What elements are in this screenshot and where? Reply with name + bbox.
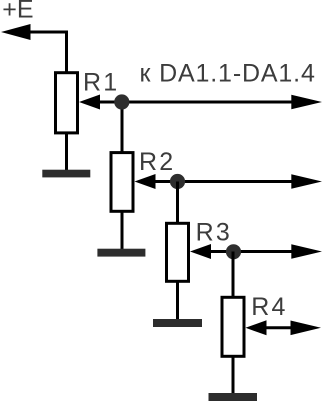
wire row 1 [98, 101, 292, 104]
ground (R3) [153, 319, 202, 327]
ground (R4) [209, 393, 258, 401]
wire node 1 to R2 top [121, 102, 124, 154]
svg-text:R2: R2 [139, 148, 175, 176]
svg-text:R3: R3 [196, 219, 232, 247]
wire row 3 [209, 250, 292, 253]
arrow to +E supply [1, 24, 31, 40]
wire R1 bottom to ground [65, 133, 68, 171]
ground (R2) [97, 249, 145, 257]
svg-text:R1: R1 [83, 69, 119, 97]
arrow out row 1 [291, 95, 322, 110]
wire node 2 to R3 top [176, 182, 179, 224]
resistor R4 [222, 297, 244, 356]
junction node 3 [226, 244, 241, 259]
junction node 1 [114, 94, 129, 109]
wire node 3 to R4 top [232, 252, 235, 299]
svg-text:R4: R4 [251, 293, 287, 321]
resistor R3 [167, 223, 189, 281]
wire R3 bottom to ground [176, 282, 179, 321]
wiper arrow into R4 [246, 320, 267, 335]
junction node 2 [170, 174, 185, 189]
wiper arrow into R2 [135, 174, 156, 189]
resistor R1 [56, 73, 78, 133]
wire row 2 [154, 180, 293, 183]
wiper arrow into R3 [190, 244, 211, 259]
wire R4 bottom to ground [232, 356, 235, 395]
wire row 4 [265, 326, 293, 329]
arrow out row 3 [291, 244, 322, 259]
arrow out row 2 [291, 174, 322, 189]
wire +E feed to R1 top [29, 32, 67, 72]
resistor R2 [111, 153, 133, 212]
wiper arrow into R1 [79, 95, 100, 110]
ground (R1) [42, 170, 90, 178]
svg-text:к DA1.1-DA1.4: к DA1.1-DA1.4 [140, 60, 316, 88]
wire R2 bottom to ground [121, 211, 124, 250]
svg-text:+E: +E [2, 0, 33, 24]
arrow out row 4 [291, 321, 322, 336]
